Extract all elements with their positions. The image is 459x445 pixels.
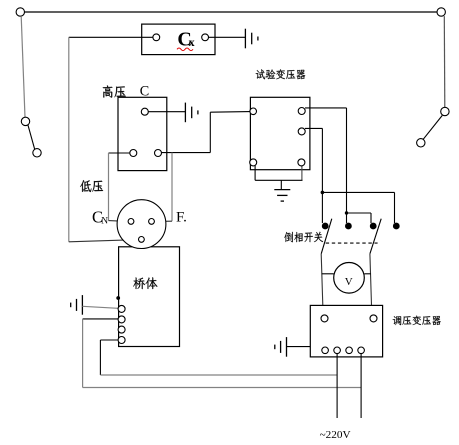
svg-text:C: C — [140, 83, 149, 99]
svg-text:~220V: ~220V — [320, 430, 351, 441]
svg-text:x: x — [189, 35, 195, 49]
svg-text:F.: F. — [176, 209, 187, 225]
svg-text:N: N — [101, 216, 108, 226]
svg-text:V: V — [345, 276, 353, 288]
